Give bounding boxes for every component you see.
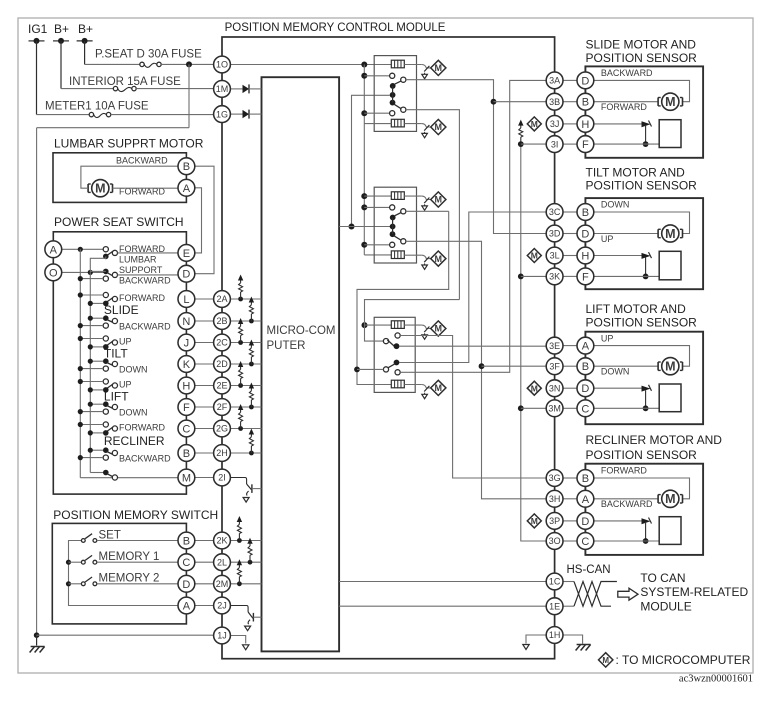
svg-text:M: M xyxy=(531,383,538,393)
svg-text:2H: 2H xyxy=(216,448,228,458)
svg-text:LIFT MOTOR AND: LIFT MOTOR AND xyxy=(586,302,687,316)
svg-text:UP: UP xyxy=(601,333,614,343)
svg-text:MEMORY 2: MEMORY 2 xyxy=(99,573,160,585)
svg-text:J: J xyxy=(184,338,190,350)
svg-text:2G: 2G xyxy=(216,424,228,434)
svg-text:UP: UP xyxy=(119,337,132,347)
svg-text:DOWN: DOWN xyxy=(119,408,148,418)
svg-text:2C: 2C xyxy=(216,338,228,348)
svg-text:N: N xyxy=(182,316,190,328)
svg-text:PUTER: PUTER xyxy=(267,340,306,352)
svg-text:B: B xyxy=(582,473,589,485)
svg-text:TILT: TILT xyxy=(104,346,128,360)
svg-text:IG1: IG1 xyxy=(28,22,48,36)
svg-text:RECLINER MOTOR AND: RECLINER MOTOR AND xyxy=(586,433,723,447)
svg-text:E: E xyxy=(183,248,190,260)
svg-text:B: B xyxy=(582,361,589,373)
svg-text:3N: 3N xyxy=(549,383,561,393)
svg-text:D: D xyxy=(581,516,589,528)
svg-text:A: A xyxy=(50,244,58,256)
svg-text:3M: 3M xyxy=(548,404,561,414)
svg-text:2J: 2J xyxy=(217,601,227,611)
svg-text:TO CAN: TO CAN xyxy=(640,571,685,585)
svg-text:M: M xyxy=(531,251,538,261)
svg-text:3P: 3P xyxy=(549,516,560,526)
svg-text:C: C xyxy=(182,557,190,569)
svg-text:M: M xyxy=(435,122,443,132)
svg-text:D: D xyxy=(182,579,190,591)
svg-text:B+: B+ xyxy=(78,22,93,36)
svg-text:INTERIOR 15A FUSE: INTERIOR 15A FUSE xyxy=(69,76,181,88)
svg-text:3L: 3L xyxy=(550,251,560,261)
svg-text:FORWARD: FORWARD xyxy=(601,466,647,476)
svg-text:C: C xyxy=(182,424,190,436)
svg-text:RECLINER: RECLINER xyxy=(104,434,165,448)
svg-text:POWER SEAT SWITCH: POWER SEAT SWITCH xyxy=(54,215,184,229)
svg-text:M: M xyxy=(531,516,538,526)
svg-text:1G: 1G xyxy=(216,109,228,119)
svg-text:D: D xyxy=(581,229,589,241)
svg-text:A: A xyxy=(582,494,590,506)
svg-text:SLIDE MOTOR AND: SLIDE MOTOR AND xyxy=(586,38,697,52)
svg-text:POSITION MEMORY SWITCH: POSITION MEMORY SWITCH xyxy=(53,508,218,522)
svg-text:B: B xyxy=(582,97,589,109)
svg-text:1H: 1H xyxy=(549,630,561,640)
svg-text:POSITION SENSOR: POSITION SENSOR xyxy=(586,316,698,330)
svg-text:F: F xyxy=(582,271,589,283)
svg-text:2M: 2M xyxy=(216,579,229,589)
svg-text:F: F xyxy=(582,139,589,151)
svg-text:3O: 3O xyxy=(549,536,561,546)
svg-text:BACKWARD: BACKWARD xyxy=(119,322,171,332)
svg-text:3G: 3G xyxy=(549,473,561,483)
svg-text:1C: 1C xyxy=(549,577,561,587)
svg-text:POSITION SENSOR: POSITION SENSOR xyxy=(586,178,698,192)
svg-text:2B: 2B xyxy=(216,316,227,326)
svg-text:3K: 3K xyxy=(549,272,560,282)
svg-text:B: B xyxy=(582,207,589,219)
svg-text:O: O xyxy=(49,267,58,279)
svg-text:2L: 2L xyxy=(217,557,227,567)
svg-text:M: M xyxy=(665,360,675,374)
svg-text:M: M xyxy=(435,254,443,264)
svg-text:M: M xyxy=(435,383,443,393)
svg-text:H: H xyxy=(182,381,190,393)
svg-text:DOWN: DOWN xyxy=(601,367,630,377)
svg-text:POSITION SENSOR: POSITION SENSOR xyxy=(586,448,698,462)
svg-text:POSITION SENSOR: POSITION SENSOR xyxy=(586,51,698,65)
svg-text:DOWN: DOWN xyxy=(601,200,630,210)
svg-text:B: B xyxy=(183,161,190,173)
svg-text:C: C xyxy=(581,536,589,548)
svg-text:3A: 3A xyxy=(549,76,560,86)
svg-text:3F: 3F xyxy=(549,361,560,371)
svg-text:1O: 1O xyxy=(216,60,228,70)
svg-text:2I: 2I xyxy=(218,473,226,483)
svg-text:HS-CAN: HS-CAN xyxy=(567,564,611,576)
svg-text:POSITION MEMORY CONTROL MODULE: POSITION MEMORY CONTROL MODULE xyxy=(225,22,446,34)
svg-text:1M: 1M xyxy=(216,84,229,94)
svg-text:BACKWARD: BACKWARD xyxy=(601,68,653,78)
svg-text:UP: UP xyxy=(119,380,132,390)
svg-text:B+: B+ xyxy=(54,22,69,36)
svg-text:MEMORY 1: MEMORY 1 xyxy=(99,551,160,563)
svg-text:C: C xyxy=(581,403,589,415)
svg-text:D: D xyxy=(581,383,589,395)
svg-text:LUMBAR SUPPRT MOTOR: LUMBAR SUPPRT MOTOR xyxy=(54,137,204,151)
svg-text:M: M xyxy=(182,473,191,485)
svg-text:M: M xyxy=(665,227,675,241)
svg-text:3B: 3B xyxy=(549,97,560,107)
svg-text:M: M xyxy=(95,182,105,196)
svg-text:A: A xyxy=(582,341,590,353)
svg-text:F: F xyxy=(183,402,190,414)
svg-text:3E: 3E xyxy=(549,341,560,351)
svg-text:H: H xyxy=(581,119,589,131)
svg-text:SET: SET xyxy=(99,530,121,542)
svg-text:2E: 2E xyxy=(216,381,227,391)
svg-text:2K: 2K xyxy=(216,536,227,546)
svg-text:K: K xyxy=(183,359,191,371)
svg-text:SUPPORT: SUPPORT xyxy=(119,265,163,275)
svg-text:2F: 2F xyxy=(217,402,228,412)
svg-text:MODULE: MODULE xyxy=(640,600,691,614)
svg-text:M: M xyxy=(435,63,443,73)
svg-text:SLIDE: SLIDE xyxy=(104,303,139,317)
svg-text:3H: 3H xyxy=(549,494,561,504)
svg-text:A: A xyxy=(183,601,191,613)
svg-text:L: L xyxy=(183,294,189,306)
svg-text:P.SEAT D 30A FUSE: P.SEAT D 30A FUSE xyxy=(95,48,202,60)
svg-text:M: M xyxy=(602,656,609,665)
svg-text:D: D xyxy=(182,269,190,281)
svg-text:1J: 1J xyxy=(217,631,227,641)
svg-text:FORWARD: FORWARD xyxy=(601,102,647,112)
svg-text:M: M xyxy=(665,95,675,109)
svg-text:BACKWARD: BACKWARD xyxy=(119,276,171,286)
svg-text:UP: UP xyxy=(601,234,614,244)
svg-text:D: D xyxy=(581,75,589,87)
svg-text:3I: 3I xyxy=(551,139,559,149)
svg-text:A: A xyxy=(183,183,191,195)
svg-text:: TO MICROCOMPUTER: : TO MICROCOMPUTER xyxy=(616,653,751,667)
svg-text:3J: 3J xyxy=(550,119,560,129)
svg-text:M: M xyxy=(435,324,443,334)
svg-text:B: B xyxy=(183,448,190,460)
svg-text:METER1 10A FUSE: METER1 10A FUSE xyxy=(45,101,149,113)
svg-text:2A: 2A xyxy=(216,294,227,304)
svg-text:3C: 3C xyxy=(549,207,561,217)
svg-text:M: M xyxy=(665,492,675,506)
svg-text:LUMBAR: LUMBAR xyxy=(119,255,157,265)
svg-text:B: B xyxy=(183,536,190,548)
svg-text:H: H xyxy=(581,251,589,263)
svg-text:BACKWARD: BACKWARD xyxy=(116,156,168,166)
svg-text:DOWN: DOWN xyxy=(119,365,148,375)
svg-text:1E: 1E xyxy=(549,601,560,611)
svg-text:M: M xyxy=(531,119,538,129)
svg-text:2D: 2D xyxy=(216,359,228,369)
svg-text:ac3wzn00001601: ac3wzn00001601 xyxy=(679,674,753,685)
svg-text:BACKWARD: BACKWARD xyxy=(601,499,653,509)
svg-text:M: M xyxy=(435,195,443,205)
svg-text:FORWARD: FORWARD xyxy=(119,423,165,433)
svg-text:MICRO-COM: MICRO-COM xyxy=(267,325,336,337)
svg-text:3D: 3D xyxy=(549,229,561,239)
svg-text:LIFT: LIFT xyxy=(104,389,129,403)
svg-text:BACKWARD: BACKWARD xyxy=(119,454,171,464)
svg-text:SYSTEM-RELATED: SYSTEM-RELATED xyxy=(640,585,748,599)
svg-text:FORWARD: FORWARD xyxy=(119,293,165,303)
